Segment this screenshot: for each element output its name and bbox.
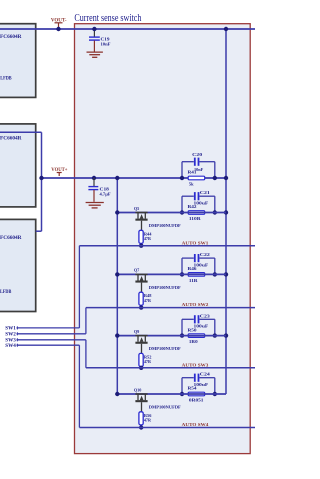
svg-text:C23: C23 (200, 313, 211, 318)
svg-text:C24: C24 (200, 372, 211, 377)
svg-text:DMP100NUFDF: DMP100NUFDF (149, 223, 181, 228)
svg-text:LFDB: LFDB (0, 290, 12, 295)
svg-text:SW4: SW4 (5, 344, 16, 349)
svg-text:AUTO SW2: AUTO SW2 (182, 302, 209, 307)
svg-text:EFC6604R: EFC6604R (0, 137, 22, 142)
svg-text:AUTO SW3: AUTO SW3 (182, 362, 209, 367)
svg-text:SW2: SW2 (5, 333, 16, 338)
svg-text:R41: R41 (188, 170, 198, 175)
svg-text:Q7: Q7 (134, 268, 140, 273)
svg-text:1R0: 1R0 (189, 339, 199, 344)
svg-text:C22: C22 (200, 252, 211, 257)
svg-text:LFDB: LFDB (0, 76, 12, 81)
svg-text:47R: 47R (144, 236, 152, 241)
svg-text:EFC6604R: EFC6604R (0, 236, 22, 241)
svg-text:110R: 110R (189, 216, 202, 221)
svg-text:C21: C21 (200, 190, 211, 195)
svg-text:DMP100NUFDF: DMP100NUFDF (149, 346, 181, 351)
svg-text:11R: 11R (189, 278, 199, 283)
svg-text:DMP100NUFDF: DMP100NUFDF (149, 285, 181, 290)
svg-text:C20: C20 (192, 152, 203, 157)
svg-text:R50: R50 (188, 327, 198, 332)
svg-text:Q9: Q9 (134, 329, 140, 334)
svg-text:SW3: SW3 (5, 339, 16, 344)
svg-text:Current sense switch: Current sense switch (74, 12, 141, 24)
svg-text:4.7µF: 4.7µF (100, 192, 111, 197)
svg-text:47R: 47R (144, 298, 152, 303)
svg-text:Q10: Q10 (134, 387, 142, 392)
svg-text:R54: R54 (188, 386, 198, 391)
svg-text:EFC6604R: EFC6604R (0, 35, 22, 40)
svg-text:SW1: SW1 (5, 327, 16, 332)
svg-text:AUTO SW4: AUTO SW4 (182, 422, 209, 427)
svg-text:10nF: 10nF (101, 41, 111, 46)
svg-text:0R051: 0R051 (189, 398, 204, 403)
svg-text:R46: R46 (188, 266, 198, 271)
svg-text:47R: 47R (144, 418, 152, 423)
svg-text:R42: R42 (188, 204, 198, 209)
svg-text:Q5: Q5 (134, 206, 140, 211)
svg-text:DMP100NUFDF: DMP100NUFDF (149, 405, 181, 410)
svg-text:AUTO SW1: AUTO SW1 (182, 240, 209, 245)
svg-text:5k: 5k (189, 182, 194, 187)
svg-text:47R: 47R (144, 359, 152, 364)
